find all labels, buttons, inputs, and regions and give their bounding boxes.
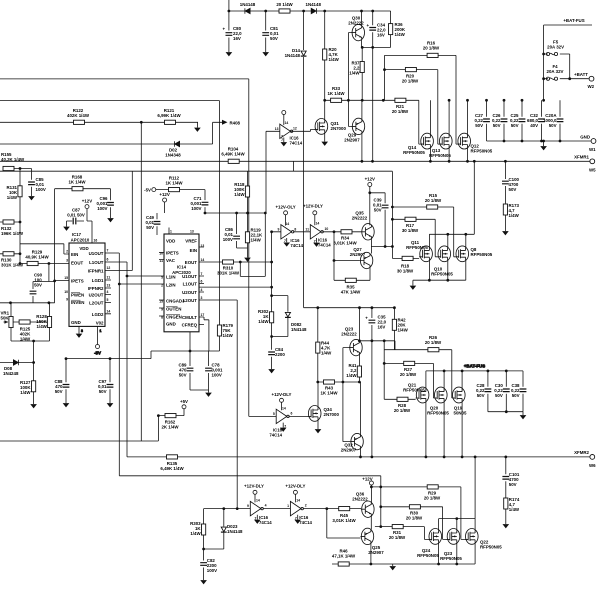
svg-text:20 1/8W: 20 1/8W	[425, 340, 442, 345]
wire y=341 join	[11, 340, 50, 363]
wire vertical x=380.8	[380, 476, 382, 527]
ground below Q34	[315, 430, 320, 433]
svg-text:13: 13	[275, 127, 279, 131]
ground caps bank	[541, 147, 546, 150]
svg-text:20 1/8W: 20 1/8W	[394, 408, 411, 413]
ground below inverter D	[295, 520, 300, 523]
svg-text:50V: 50V	[493, 123, 501, 128]
wire bases loop bottom	[327, 509, 361, 538]
svg-text:2N2222: 2N2222	[352, 216, 368, 221]
wire XFMR2 bus y=456.9	[127, 456, 590, 458]
svg-text:8: 8	[294, 227, 296, 231]
svg-text:74C14: 74C14	[299, 520, 312, 525]
node R121 line junction	[140, 121, 143, 124]
power +12V driver1	[365, 177, 375, 226]
svg-text:1/4W: 1/4W	[37, 324, 48, 329]
wire inverter chain line y=508.6	[204, 507, 361, 510]
svg-text:12: 12	[293, 127, 297, 131]
svg-text:U1OUT: U1OUT	[89, 251, 104, 256]
svg-text:1K 1/4W: 1K 1/4W	[68, 180, 86, 185]
wire EIN feed	[20, 222, 69, 264]
wire F4 +BATT line	[544, 78, 589, 80]
resistor R17 30	[391, 217, 437, 257]
diode D14	[285, 48, 307, 58]
svg-text:CNGEN: CNGEN	[166, 315, 182, 320]
ground below C85	[29, 197, 34, 200]
capacitor C30	[494, 370, 509, 414]
transistor Q29 2N2907	[344, 100, 364, 162]
svg-text:15: 15	[64, 276, 68, 280]
svg-text:50V: 50V	[179, 373, 187, 378]
resistor R155 40.2K	[1, 152, 32, 171]
svg-text:PWEN: PWEN	[71, 293, 84, 298]
capacitor C85	[28, 169, 46, 197]
ground bank2 sources	[410, 286, 415, 289]
wire F5 line	[544, 54, 570, 79]
svg-text:3: 3	[66, 259, 68, 263]
diode 1N4148 second	[306, 2, 322, 14]
svg-text:11: 11	[305, 228, 309, 232]
svg-text:40,9K 1/4W: 40,9K 1/4W	[25, 255, 49, 260]
svg-text:1K 1/4W: 1K 1/4W	[320, 391, 338, 396]
svg-text:RFP50N05: RFP50N05	[471, 252, 493, 257]
resistor R33 1K	[323, 86, 363, 102]
svg-text:10: 10	[325, 227, 329, 231]
svg-text:2: 2	[66, 250, 68, 254]
svg-text:2N2222: 2N2222	[352, 497, 368, 502]
resistor R20b 20	[383, 68, 419, 84]
svg-text:+12V-DLY: +12V-DLY	[285, 484, 305, 489]
fuse F5	[546, 40, 564, 56]
svg-text:L2OUT: L2OUT	[183, 298, 198, 303]
transistor Q12 RFP50N05	[457, 99, 493, 163]
svg-text:4: 4	[201, 288, 203, 292]
transistor Q24 RFP50N05	[417, 519, 441, 564]
transistor Q14 RFP50N05	[403, 100, 433, 162]
wire caps bottom bank3	[488, 412, 523, 415]
op-amp IC16 inverter D	[285, 484, 312, 526]
svg-text:20A 32V: 20A 32V	[547, 69, 564, 74]
svg-text:APC2010: APC2010	[71, 238, 90, 243]
wire R20 column	[324, 11, 326, 100]
power +12V IC17	[77, 199, 93, 244]
ground below IC16 mid2	[314, 243, 319, 246]
svg-text:100V: 100V	[207, 568, 217, 573]
svg-text:1K 1/4W: 1K 1/4W	[327, 91, 345, 96]
capacitor C20A	[543, 100, 563, 142]
transistor Q27 2N2907	[333, 230, 373, 280]
svg-text:74C14: 74C14	[290, 243, 303, 248]
ground below C78	[206, 393, 211, 396]
svg-text:47,1K 1/4W: 47,1K 1/4W	[332, 554, 356, 559]
svg-text:20 1/8W: 20 1/8W	[392, 109, 409, 114]
ground below R119	[245, 258, 250, 261]
svg-text:50V: 50V	[34, 283, 42, 288]
svg-text:+5V: +5V	[180, 399, 188, 404]
node emitter junction	[361, 46, 374, 49]
svg-text:L2OUT: L2OUT	[89, 301, 104, 306]
resistor R26 20 bank3	[384, 335, 452, 398]
resistor R35 47K	[334, 278, 370, 294]
wire R20b line y=69.6	[385, 55, 440, 144]
svg-text:3,01K 1/4W: 3,01K 1/4W	[332, 518, 356, 523]
terminal W6 XFMR2	[574, 450, 596, 468]
resistor R28 20	[384, 397, 415, 413]
ground below C80	[226, 53, 231, 56]
svg-text:U1OUT: U1OUT	[182, 274, 197, 279]
svg-text:1N4148: 1N4148	[306, 2, 322, 7]
svg-text:1N4348: 1N4348	[165, 153, 181, 158]
svg-text:RFP50N05: RFP50N05	[471, 149, 493, 154]
svg-text:1N4148: 1N4148	[240, 2, 256, 7]
svg-text:7: 7	[284, 239, 286, 243]
capacitor C34	[367, 23, 387, 38]
capacitor C90	[32, 282, 34, 303]
svg-text:74C14: 74C14	[318, 243, 331, 248]
op-amp IC16 inverter C	[244, 484, 272, 526]
IC17 pin labels	[71, 246, 104, 326]
svg-text:16V: 16V	[378, 325, 386, 330]
svg-text:2K 1/4W: 2K 1/4W	[161, 425, 179, 430]
capacitor C100	[502, 160, 520, 204]
terminal W5 XFMR1	[574, 155, 596, 173]
svg-text:1/4W: 1/4W	[398, 328, 409, 333]
op-amp IC16 inverter mid2	[303, 204, 332, 248]
power +5V	[180, 399, 188, 409]
resistor R132 196K	[0, 220, 24, 236]
svg-text:2N2907: 2N2907	[344, 138, 360, 143]
wire bank2 drain rail y=234.3	[429, 161, 474, 247]
svg-text:+BAT-FUS: +BAT-FUS	[563, 18, 584, 23]
wire stub bus to second line	[293, 161, 295, 171]
ground below Q31	[322, 142, 327, 145]
capacitor C101	[502, 456, 519, 499]
svg-text:+12V: +12V	[365, 177, 375, 182]
resistor R173 4.7	[503, 203, 519, 231]
svg-text:VDD: VDD	[79, 246, 88, 251]
IC17 right pin stubs	[105, 253, 132, 314]
node top bus junctions	[228, 10, 375, 13]
capacitor C89	[178, 351, 193, 390]
svg-text:W1: W1	[589, 147, 596, 152]
svg-text:VAC: VAC	[166, 258, 176, 263]
svg-text:20 1/8W: 20 1/8W	[406, 516, 423, 521]
wire bank4 source line	[332, 563, 475, 566]
svg-text:1/4W: 1/4W	[321, 351, 332, 356]
wire C34 column	[372, 11, 374, 47]
svg-text:+BATT: +BATT	[574, 72, 588, 77]
wire chip gnd column	[151, 332, 220, 359]
svg-text:IC14: IC14	[177, 265, 187, 270]
svg-text:50N05: 50N05	[454, 411, 467, 416]
ground bank4	[390, 567, 395, 570]
svg-text:U2OUT: U2OUT	[89, 293, 104, 298]
svg-text:14: 14	[107, 310, 111, 314]
svg-text:+: +	[365, 316, 368, 321]
transistor Q31 2N7000	[314, 100, 346, 141]
svg-text:R408: R408	[230, 120, 241, 125]
resistor R43 1K	[316, 380, 360, 396]
svg-text:14: 14	[296, 499, 300, 503]
resistor R44 4.7K	[316, 308, 332, 382]
ground below R174	[503, 525, 508, 528]
capacitor C49	[145, 213, 160, 235]
resistor R20 4.7K	[323, 47, 340, 62]
svg-text:4: 4	[265, 504, 267, 508]
wire R122 R121 line y=122.3	[0, 122, 198, 127]
svg-text:0,01 50V: 0,01 50V	[67, 213, 85, 218]
svg-text:14: 14	[316, 222, 320, 226]
svg-text:GND: GND	[71, 320, 81, 325]
transistor Q36 2N2222	[352, 492, 374, 530]
svg-text:1/4W: 1/4W	[346, 373, 357, 378]
potentiometer VR1	[1, 303, 14, 341]
op-amp IC16 inverter mid1	[270, 205, 310, 248]
power -5V mid	[144, 188, 156, 193]
terminal W2 +BATT	[574, 72, 595, 89]
diode D023	[202, 509, 243, 551]
svg-text:+12V-OLY: +12V-OLY	[275, 205, 295, 210]
svg-text:1N4248: 1N4248	[3, 371, 19, 376]
capacitor C82	[200, 549, 217, 580]
svg-text:XFMR1: XFMR1	[574, 155, 589, 160]
svg-text:100V: 100V	[212, 373, 222, 378]
capacitor C25	[510, 99, 525, 143]
svg-text:74C14: 74C14	[290, 141, 303, 146]
wire L1OUT vertical x=127	[126, 262, 128, 457]
ground below R121 line	[195, 128, 200, 131]
svg-text:RFP50N05: RFP50N05	[403, 388, 425, 393]
svg-text:2N2907: 2N2907	[350, 252, 366, 257]
svg-text:-5V: -5V	[94, 351, 101, 356]
ground below C82	[201, 581, 206, 584]
wire +BAT-FUS rail bank3	[426, 364, 523, 371]
svg-text:10: 10	[64, 290, 68, 294]
svg-text:50V: 50V	[374, 208, 382, 213]
svg-text:LGD1: LGD1	[92, 278, 104, 283]
resistor R15 20	[391, 193, 455, 257]
IC14 pin stubs	[159, 228, 204, 325]
svg-text:7: 7	[281, 138, 283, 142]
wire R30 line	[379, 505, 446, 539]
resistor R42 20K	[392, 306, 408, 349]
capacitor C35	[365, 308, 386, 341]
ground below R127	[31, 405, 36, 408]
svg-text:INVEN: INVEN	[71, 300, 84, 305]
capacitor C27	[474, 99, 489, 141]
resistor R31 20	[389, 525, 406, 541]
capacitor C86	[223, 213, 240, 248]
svg-text:1N4148: 1N4148	[291, 327, 307, 332]
svg-text:W5: W5	[589, 168, 596, 173]
ground IC17 GND pin	[76, 326, 83, 337]
svg-text:100V: 100V	[223, 237, 233, 242]
transistor Q19 RFP50N05	[452, 370, 467, 459]
resistor 20 1/4W top	[276, 2, 293, 13]
ground below R173	[503, 232, 508, 235]
svg-text:402K 1/4W: 402K 1/4W	[67, 113, 90, 118]
wire IPETS feed	[33, 264, 69, 303]
transistor Q23b RFP50N05	[440, 517, 462, 564]
svg-text:5: 5	[107, 298, 109, 302]
svg-text:50V: 50V	[509, 482, 517, 487]
wire top bus y=11	[229, 0, 391, 11]
IC17 pin numbers	[64, 249, 110, 314]
svg-text:47K 1/4W: 47K 1/4W	[341, 290, 361, 295]
capacitor C96	[97, 189, 114, 218]
svg-text:30 1/8W: 30 1/8W	[402, 228, 419, 233]
capacitor C84	[268, 337, 285, 370]
svg-text:20 1/4W: 20 1/4W	[276, 2, 293, 7]
svg-text:6: 6	[291, 412, 293, 416]
resistor R37 2.2	[349, 61, 364, 76]
resistor R46 47.1K	[332, 549, 356, 567]
resistor R34 3.01K	[333, 230, 362, 246]
resistor R118 100K	[234, 171, 250, 213]
diode D08	[0, 360, 35, 376]
resistor R45 3.01K	[332, 507, 356, 524]
resistor R129 40.9K EOUT line	[19, 250, 69, 266]
resistor R130 301K	[0, 252, 24, 268]
svg-text:OUTEN: OUTEN	[166, 307, 181, 312]
transistor Q34 2N7000	[308, 382, 340, 429]
resistor R174 4.7	[504, 497, 520, 524]
svg-text:IFPNR2: IFPNR2	[88, 286, 104, 291]
svg-text:GND: GND	[166, 322, 176, 327]
transistor Q8 RFP50N05	[455, 246, 492, 262]
svg-text:100V: 100V	[36, 187, 46, 192]
power +12V mid	[159, 192, 169, 213]
wire inverter top input vertical	[264, 131, 267, 214]
svg-text:6: 6	[107, 258, 109, 262]
svg-text:VREF: VREF	[185, 239, 197, 244]
svg-text:RFP50N05: RFP50N05	[427, 411, 449, 416]
svg-text:VDD: VDD	[166, 239, 175, 244]
transistor Q11 RFP50N05	[406, 240, 432, 262]
svg-text:1N4148: 1N4148	[285, 53, 301, 58]
transistor Q35 2N2222	[352, 211, 394, 254]
svg-text:RFP50N05: RFP50N05	[403, 150, 425, 155]
svg-text:1K 1/4W: 1K 1/4W	[165, 181, 183, 186]
svg-text:EIN: EIN	[71, 252, 78, 257]
svg-text:16V: 16V	[233, 36, 241, 41]
svg-text:L1OUT: L1OUT	[89, 260, 104, 265]
svg-text:50V: 50V	[511, 123, 519, 128]
svg-text:+BAT-FUS: +BAT-FUS	[464, 364, 485, 369]
wire vertical x=141.3 long	[140, 122, 142, 441]
svg-text:1/4W: 1/4W	[190, 531, 201, 536]
label +BAT-FUS	[563, 18, 584, 23]
capacitor C71	[191, 190, 209, 213]
node XFMR2 bus junctions	[371, 341, 374, 459]
svg-text:3: 3	[201, 296, 203, 300]
wire bootstrap vertical	[372, 47, 374, 161]
ground bank3 caps	[520, 416, 525, 419]
wire x=271.6 vertical	[270, 232, 273, 296]
svg-text:RFP50N05: RFP50N05	[417, 553, 439, 558]
wire caps bottom line to W1	[487, 140, 591, 146]
svg-text:5: 5	[273, 412, 275, 416]
wire R37 column	[361, 47, 363, 100]
svg-text:1/4W: 1/4W	[329, 57, 340, 62]
svg-text:RFP50N05: RFP50N05	[406, 245, 428, 250]
svg-text:1: 1	[100, 329, 102, 333]
resistor R36 200K	[389, 22, 406, 37]
node fuse-column to drain rail	[542, 99, 545, 102]
svg-text:50K: 50K	[1, 316, 10, 321]
svg-text:11: 11	[107, 276, 111, 280]
fuse F4	[546, 64, 563, 80]
svg-text:EIN: EIN	[190, 248, 197, 253]
wire node line y=213	[204, 212, 266, 215]
svg-text:1/4W: 1/4W	[349, 71, 360, 76]
svg-text:GND: GND	[580, 135, 590, 140]
svg-text:1/4W: 1/4W	[223, 333, 234, 338]
ground below inverter B	[281, 428, 286, 431]
node second bus stubs	[371, 160, 476, 163]
ground below IC16 mid1	[284, 243, 289, 246]
wire -5V net y=358.6	[65, 357, 151, 360]
ground below C96	[108, 219, 113, 222]
diode D082	[270, 296, 307, 338]
ground below IC16 top	[281, 143, 286, 146]
wire R31 line	[375, 525, 429, 539]
resistor R16 20	[423, 41, 440, 58]
capacitor C80	[223, 26, 243, 41]
wire R408 arrow line	[0, 122, 222, 144]
svg-text:20 1/8W: 20 1/8W	[423, 46, 440, 51]
wire feedback line y=100.6	[0, 101, 220, 325]
resistor R41 2.2	[346, 363, 361, 382]
svg-text:10: 10	[159, 252, 163, 256]
diode D02	[165, 141, 181, 157]
ground below C88	[63, 404, 68, 407]
resistor R127 100K	[20, 363, 36, 405]
resistor R135 6.49K in bus	[160, 455, 184, 471]
transistor Q25 2N2907	[361, 528, 385, 564]
svg-text:CFREQ: CFREQ	[182, 323, 198, 328]
capacitor C78	[190, 351, 223, 393]
resistor R119 22.1K	[237, 213, 263, 258]
capacitor C88	[54, 359, 69, 403]
svg-text:1/4W: 1/4W	[7, 195, 18, 200]
capacitor C87	[67, 208, 85, 227]
resistor R303 1K	[190, 509, 206, 549]
svg-text:20 1/8W: 20 1/8W	[389, 535, 406, 540]
svg-text:1/4W: 1/4W	[509, 213, 520, 218]
svg-text:LGD2: LGD2	[92, 312, 104, 317]
svg-text:6,49K 1/4W: 6,49K 1/4W	[221, 152, 245, 157]
svg-text:+12V: +12V	[82, 199, 92, 204]
svg-text:1/4W: 1/4W	[251, 238, 262, 243]
resistor R21 20	[382, 98, 409, 114]
capacitor C97	[98, 359, 113, 403]
svg-text:14: 14	[285, 121, 289, 125]
svg-text:V02: V02	[96, 321, 104, 326]
wire H10 line y=307.7	[304, 306, 395, 309]
wire R29 line	[370, 486, 465, 540]
transistor Q13 RFP50N05	[429, 99, 452, 163]
transistor Q32 2N2907	[341, 382, 363, 458]
svg-text:IPETS: IPETS	[166, 251, 179, 256]
svg-text:2N7000: 2N7000	[331, 126, 347, 131]
svg-text:16: 16	[94, 239, 98, 243]
svg-text:100V: 100V	[97, 206, 107, 211]
svg-text:30 1/8W: 30 1/8W	[397, 269, 414, 274]
svg-text:40,2K 1/4W: 40,2K 1/4W	[1, 157, 25, 162]
resistor R122 402K	[67, 108, 90, 124]
op-amp IC16 inverter B	[269, 392, 308, 438]
